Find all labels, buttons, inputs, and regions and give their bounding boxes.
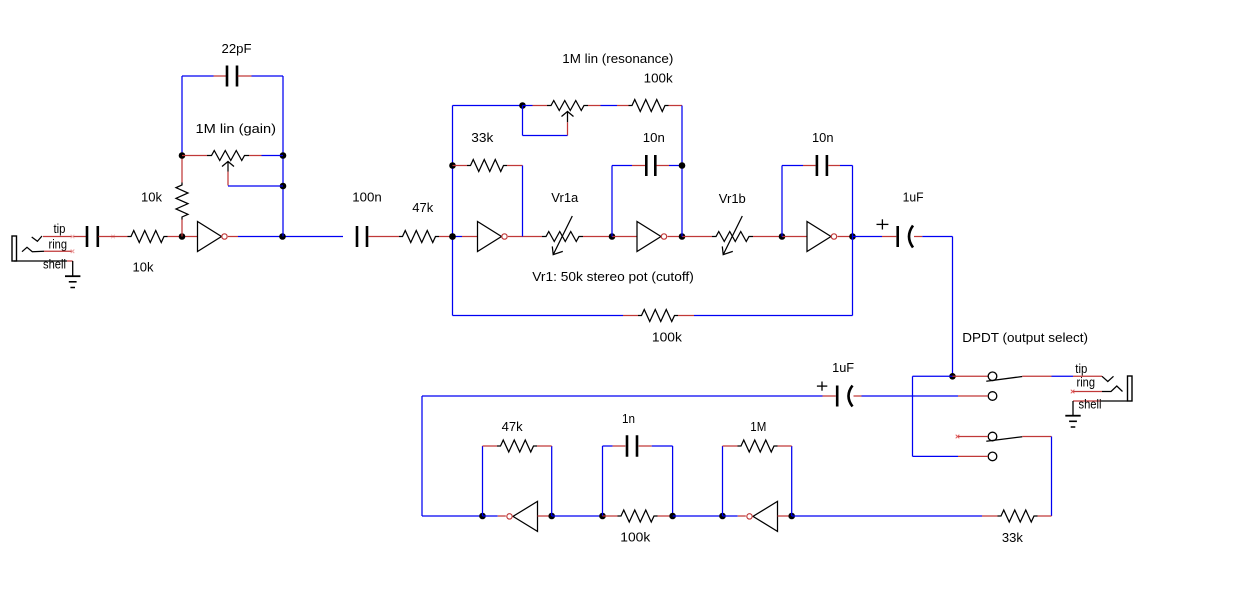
wire C4 left lead: [632, 165, 645, 167]
svg-text:10n: 10n: [812, 130, 834, 145]
wire R4 right lead: [669, 105, 683, 107]
capacitor C4 10n: [645, 155, 648, 176]
wire 22pF top right: [252, 75, 284, 77]
junction node 33k left: [449, 162, 456, 169]
unconnected marker output ring: [1071, 390, 1075, 394]
svg-text:10n: 10n: [643, 130, 665, 145]
wire C5 left lead: [803, 165, 816, 167]
svg-text:33k: 33k: [1002, 530, 1023, 545]
wire C6 right lead: [914, 236, 922, 238]
wire U5 to 1n cell: [552, 515, 603, 517]
wire lower input vertical: [1051, 437, 1053, 517]
junction node U1 output: [279, 233, 286, 240]
ground output: [1072, 401, 1074, 415]
wire gain loop left vertical: [181, 76, 183, 156]
wire U4 node to C6: [853, 236, 883, 238]
resistor R2 10k (vertical): [176, 183, 188, 220]
capacitor C5 10n: [816, 155, 819, 176]
junction node main line: [449, 233, 456, 240]
wire gain pot left lead: [182, 155, 207, 157]
potentiometer Vr1b (zigzag): [712, 232, 753, 242]
switch contact B circle: [988, 392, 997, 401]
output jack ring contact: [1102, 386, 1123, 392]
wire gain wiper to right leg: [228, 185, 283, 187]
junction node U5 output: [479, 513, 486, 520]
svg-text:Vr1b: Vr1b: [719, 191, 746, 206]
wire resonance left vertical: [452, 106, 454, 316]
wire U4 output stub: [838, 236, 853, 238]
svg-text:1M: 1M: [750, 419, 766, 434]
potentiometer VR-res 1M lin: [547, 101, 588, 111]
output jack tip contact: [1102, 376, 1114, 381]
wire R9 left lead: [723, 445, 738, 447]
wire input ring stub: [44, 250, 73, 252]
svg-text:ring: ring: [49, 237, 68, 252]
junction node U4 output: [849, 233, 856, 240]
junction node U3 output: [679, 233, 686, 240]
capacitor C3 22pF: [226, 66, 229, 87]
junction node U6 input: [788, 513, 795, 520]
wire input tip to C1: [43, 236, 86, 238]
op-amp U6 (inverter): [753, 501, 778, 531]
wire C5 right vertical: [852, 166, 854, 237]
wire 33k left lead: [453, 165, 468, 167]
svg-text:Vr1a: Vr1a: [551, 190, 579, 205]
wire U6 input stub: [778, 515, 792, 517]
Vr1a diagonal arrow: [552, 216, 572, 255]
svg-text:1n: 1n: [622, 411, 635, 426]
input jack tip contact: [32, 236, 42, 241]
svg-text:33k: 33k: [471, 130, 494, 145]
op-amp U2 (inverter): [478, 222, 502, 252]
svg-text:100n: 100n: [352, 190, 382, 205]
connection marker input tip: [71, 235, 75, 239]
wire R8 right lead: [658, 515, 673, 517]
junction node U6 output: [719, 513, 726, 520]
junction node gain pot right: [280, 152, 287, 159]
Vr1b diagonal arrow: [722, 216, 742, 255]
resistor R4 100k: [629, 100, 669, 112]
wire U6 input to R10: [792, 515, 982, 517]
wire C2 right lead: [369, 236, 400, 238]
wire node to U4: [782, 236, 807, 238]
svg-text:22pF: 22pF: [222, 41, 252, 56]
wire U2 output to Vr1a: [508, 236, 542, 238]
svg-text:Vr1: 50k stereo pot (cutoff): Vr1: 50k stereo pot (cutoff): [532, 269, 694, 284]
wire U3 output stub: [668, 236, 683, 238]
capacitor C2 100n: [356, 226, 359, 247]
junction node gain pot left: [179, 152, 186, 159]
wire to output jack blue: [1052, 375, 1074, 377]
junction node 1n right: [669, 513, 676, 520]
wire R6 left lead: [623, 315, 638, 317]
wire contact D loop: [913, 455, 959, 457]
svg-text:10k: 10k: [141, 190, 162, 205]
capacitor C8 1n: [626, 435, 629, 457]
potentiometer Vr1a (zigzag): [542, 232, 583, 242]
wire gain loop right vertical: [282, 76, 284, 237]
wire C8 left lead: [603, 445, 613, 447]
wire R2 leads: [181, 158, 183, 183]
input jack J1 body: [12, 236, 17, 261]
junction node filter input: [449, 233, 456, 240]
switch pole 2 lever: [986, 437, 1022, 442]
junction node U5 input: [548, 513, 555, 520]
wire R8 left lead: [603, 515, 618, 517]
svg-text:100k: 100k: [644, 71, 674, 86]
svg-text:shell: shell: [43, 257, 66, 272]
switch contact D circle: [988, 452, 997, 461]
op-amp U1 (inverter): [198, 222, 222, 252]
unconnected marker contact C: [956, 435, 960, 439]
wire lower loop bottom: [422, 515, 483, 517]
wire U1 output stub: [228, 236, 238, 238]
switch pole 1 lever: [986, 377, 1022, 382]
wire to output jack tip: [1073, 375, 1102, 377]
wire C6 left lead: [882, 236, 896, 238]
gain pot wiper arrow: [222, 162, 234, 172]
wire contact B stub: [958, 395, 988, 397]
wire R3 to node: [439, 236, 453, 238]
svg-text:shell: shell: [1079, 397, 1102, 412]
wire R9 right lead: [778, 445, 792, 447]
svg-text:DPDT (output select): DPDT (output select): [962, 330, 1088, 345]
wire output ring stub: [1073, 391, 1102, 393]
wire res pot to R4: [588, 105, 601, 107]
wire res wiper horizontal: [523, 135, 568, 137]
wire U5 input stub: [538, 515, 552, 517]
output jack J2 body: [1128, 376, 1133, 401]
svg-text:47k: 47k: [412, 200, 433, 215]
wire C5 right lead: [828, 165, 840, 167]
wire lower output line: [422, 395, 823, 397]
wire res wiper stub: [567, 122, 569, 135]
op-amp U5 (inverter): [513, 501, 538, 531]
junction node gain wiper: [280, 183, 287, 190]
junction node DPDT common: [949, 373, 956, 380]
wire U5 output stub: [483, 515, 498, 517]
wire contact C stub: [958, 436, 989, 438]
ground input: [72, 261, 74, 276]
op-amp U3 (inverter): [637, 222, 661, 252]
wire lever C to lower input: [1022, 436, 1051, 438]
wire 1n cell to U6: [673, 515, 723, 517]
wire U6 output stub: [723, 515, 738, 517]
potentiometer VR-gain 1M lin: [207, 151, 249, 161]
op-amp U4 (inverter): [807, 222, 831, 252]
res pot wiper arrow: [562, 112, 574, 123]
wire DPDT feed vertical: [952, 237, 954, 377]
switch contact A circle: [988, 372, 997, 381]
capacitor C1 (input coupling): [86, 226, 89, 247]
switch contact C circle: [988, 432, 997, 441]
connection marker C1 right: [111, 235, 115, 239]
wire node to U2 input: [453, 236, 463, 238]
wire C5 left vertical: [781, 166, 783, 237]
wire mid feedback left: [453, 315, 624, 317]
wire contact D stub: [958, 455, 988, 457]
svg-text:tip: tip: [54, 221, 66, 236]
junction node 1n left: [599, 513, 606, 520]
resistor R10 33k: [998, 510, 1038, 522]
wire Vr1a to node: [583, 236, 612, 238]
junction node U3 input: [609, 233, 616, 240]
resistor R8 100k: [618, 510, 658, 522]
wire resonance top left: [453, 105, 523, 107]
wire 33k right vertical: [522, 166, 524, 237]
wire C4 left vertical: [611, 166, 613, 237]
svg-text:1uF: 1uF: [832, 360, 854, 375]
wire 22pF right lead: [238, 75, 252, 77]
svg-text:47k: 47k: [502, 419, 523, 434]
wire node to U3: [612, 236, 637, 238]
junction node U1 input: [179, 233, 186, 240]
capacitor C7 1uF polarized: [823, 395, 836, 397]
svg-text:100k: 100k: [620, 530, 651, 545]
wire lower loop left vertical: [421, 396, 423, 516]
wire contact B to lower filter: [862, 395, 959, 397]
wire mid feedback right vertical: [852, 237, 854, 316]
capacitor C8 1n verticals: [602, 446, 604, 516]
wire R10 left lead: [982, 515, 998, 517]
wire C6 to DPDT corner: [922, 236, 952, 238]
junction node U4 input: [779, 233, 786, 240]
wire Vr1b to node: [753, 236, 782, 238]
resistor R7 47k: [497, 440, 537, 452]
wire resonance right vertical: [681, 106, 683, 237]
wire R6 right lead: [678, 315, 694, 317]
wire R7 left lead: [483, 445, 498, 447]
unconnected marker input ring: [71, 250, 75, 254]
wire U1 output to C2: [238, 236, 343, 238]
wire R7 right lead: [537, 445, 552, 447]
svg-text:1uF: 1uF: [903, 190, 924, 205]
svg-text:1M lin (resonance): 1M lin (resonance): [562, 51, 673, 66]
resistor R3 47k: [399, 231, 439, 243]
wire res wiper vertical: [522, 106, 524, 136]
wire 22pF top left: [182, 75, 214, 77]
wire C8 right lead: [639, 445, 652, 447]
junction node C4 right: [679, 162, 686, 169]
svg-text:100k: 100k: [652, 330, 683, 345]
resistor R1 10k: [128, 231, 168, 243]
resistor R7 47k verticals: [482, 446, 484, 516]
resistor R6 100k: [638, 310, 678, 322]
svg-text:1M lin (gain): 1M lin (gain): [196, 121, 277, 136]
wire res pot left lead: [523, 105, 533, 107]
resistor R5 33k: [467, 160, 507, 172]
wire C4 right lead: [657, 165, 670, 167]
wire 33k right lead: [507, 165, 523, 167]
wire 22pF left lead: [214, 75, 227, 77]
wire gain pot right lead: [249, 155, 262, 157]
input jack ring contact: [22, 247, 44, 251]
wire R10 right lead: [1038, 515, 1052, 517]
wire input shell: [14, 260, 67, 262]
capacitor C6 1uF polarized: [896, 226, 899, 247]
wire U3 output to Vr1b: [682, 236, 712, 238]
wire C1 to R1: [99, 236, 128, 238]
wire mid feedback right: [694, 315, 853, 317]
svg-text:10k: 10k: [133, 260, 154, 275]
svg-text:ring: ring: [1077, 375, 1096, 390]
wire lever A to output: [1022, 375, 1051, 377]
wire output shell: [1101, 400, 1128, 402]
resistor R9 1M: [738, 440, 778, 452]
wire gain wiper stub: [227, 172, 229, 186]
wire R1 to U1 input: [168, 236, 198, 238]
wire to switch contact A: [953, 375, 989, 377]
junction node resonance pot left: [519, 102, 526, 109]
resistor R9 1M verticals: [722, 446, 724, 516]
